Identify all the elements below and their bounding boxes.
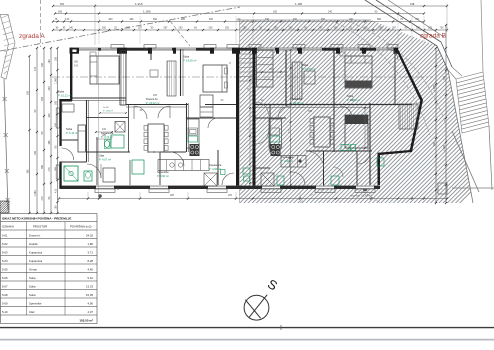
svg-text:1.060: 1.060	[34, 190, 37, 197]
svg-text:385: 385	[41, 164, 44, 169]
svg-text:250: 250	[41, 96, 44, 101]
svg-text:250: 250	[274, 27, 279, 30]
svg-text:180: 180	[349, 18, 354, 21]
svg-text:250: 250	[379, 27, 384, 30]
svg-text:P: 4,90 m²: P: 4,90 m²	[281, 159, 293, 163]
svg-text:Soba: Soba	[302, 63, 309, 67]
svg-text:Dnevni b.: Dnevni b.	[29, 233, 41, 237]
svg-text:ISKAZ NETO KORISNIH POVŠINA -: ISKAZ NETO KORISNIH POVŠINA - PRIZEMLJE	[2, 215, 71, 220]
svg-text:15,05: 15,05	[86, 293, 93, 297]
svg-text:8,28: 8,28	[88, 259, 94, 263]
svg-text:Kupaonica: Kupaonica	[29, 259, 43, 263]
svg-text:300: 300	[269, 68, 274, 71]
svg-text:5-03: 5-03	[2, 250, 8, 254]
svg-text:300: 300	[48, 86, 51, 91]
svg-text:297: 297	[319, 27, 324, 30]
svg-text:5-07: 5-07	[2, 284, 8, 288]
svg-text:385: 385	[74, 61, 79, 64]
svg-text:Soba: Soba	[183, 55, 190, 59]
svg-text:P: 1,80 m²: P: 1,80 m²	[103, 110, 113, 113]
svg-text:Dnevni Av.: Dnevni Av.	[290, 97, 302, 101]
svg-text:385: 385	[54, 166, 57, 171]
svg-text:300: 300	[41, 62, 44, 67]
svg-text:4,07: 4,07	[88, 310, 94, 314]
svg-text:3,25: 3,25	[65, 19, 70, 21]
svg-text:5-01: 5-01	[2, 233, 8, 237]
svg-text:4,40: 4,40	[88, 267, 94, 271]
svg-text:240: 240	[328, 11, 333, 14]
svg-text:P: 23,02 m²: P: 23,02 m²	[290, 101, 304, 105]
svg-text:500: 500	[58, 11, 63, 14]
svg-text:415: 415	[48, 167, 51, 172]
svg-text:5-02: 5-02	[2, 242, 8, 246]
svg-text:205: 205	[350, 99, 355, 102]
svg-text:Soba: Soba	[58, 90, 65, 94]
svg-text:P: 5,10 m²: P: 5,10 m²	[66, 131, 78, 135]
svg-text:Soba: Soba	[29, 293, 36, 297]
svg-text:Kupaonica: Kupaonica	[209, 163, 222, 167]
svg-text:300: 300	[54, 100, 57, 105]
svg-text:1.000: 1.000	[443, 144, 446, 151]
svg-text:160: 160	[273, 11, 278, 14]
svg-text:180: 180	[54, 205, 57, 210]
svg-text:103,55 m²: 103,55 m²	[79, 318, 93, 322]
svg-text:Ve 80: Ve 80	[103, 107, 109, 109]
svg-text:1.315: 1.315	[135, 2, 143, 6]
svg-text:1,80: 1,80	[88, 242, 94, 246]
svg-text:P: 4,07 m²: P: 4,07 m²	[99, 158, 111, 162]
svg-text:P: 4,90 m²: P: 4,90 m²	[157, 174, 169, 178]
svg-text:PROSTOR: PROSTOR	[33, 224, 47, 228]
svg-text:1.000: 1.000	[433, 84, 436, 91]
svg-text:300: 300	[416, 27, 421, 30]
svg-text:5-04: 5-04	[2, 259, 8, 263]
svg-text:OZNAKA: OZNAKA	[2, 224, 14, 228]
svg-text:Ormar: Ormar	[29, 267, 37, 271]
svg-text:300: 300	[48, 113, 51, 118]
svg-text:Hodnik: Hodnik	[29, 242, 38, 246]
svg-text:250: 250	[243, 27, 248, 30]
svg-text:205: 205	[289, 27, 294, 30]
svg-text:P: 23,02 m²: P: 23,02 m²	[146, 101, 160, 105]
svg-text:415: 415	[34, 66, 37, 71]
svg-text:198: 198	[410, 2, 415, 6]
svg-text:415: 415	[41, 196, 44, 201]
svg-text:P: 16,06 m²: P: 16,06 m²	[302, 67, 316, 71]
svg-text:180: 180	[129, 18, 134, 21]
svg-text:1.180: 1.180	[143, 10, 151, 14]
svg-text:5-09: 5-09	[2, 301, 8, 305]
svg-text:1.060: 1.060	[54, 77, 57, 84]
svg-text:Soba: Soba	[66, 127, 73, 131]
svg-text:Spremište: Spremište	[157, 170, 169, 174]
svg-text:300: 300	[26, 90, 29, 95]
svg-text:350: 350	[443, 75, 446, 80]
svg-text:P: 10,22 m²: P: 10,22 m²	[58, 94, 72, 98]
svg-text:700: 700	[415, 18, 420, 21]
svg-text:POVRŠINA (m2): POVRŠINA (m2)	[70, 223, 92, 228]
svg-text:385: 385	[26, 169, 29, 174]
svg-text:300: 300	[334, 27, 339, 30]
svg-text:Soba: Soba	[29, 284, 36, 288]
svg-text:385: 385	[308, 110, 313, 113]
svg-text:297: 297	[138, 27, 143, 30]
svg-text:250: 250	[321, 18, 326, 21]
svg-text:180: 180	[48, 59, 51, 64]
svg-text:24,02: 24,02	[86, 233, 93, 237]
svg-text:385: 385	[48, 140, 51, 145]
svg-text:5-08: 5-08	[2, 293, 8, 297]
svg-text:390: 390	[377, 18, 382, 21]
svg-text:390: 390	[153, 18, 158, 21]
svg-text:300: 300	[209, 27, 214, 30]
svg-text:P: 16,06 m²: P: 16,06 m²	[183, 59, 197, 63]
svg-text:287: 287	[164, 27, 169, 30]
svg-text:415: 415	[54, 188, 57, 193]
svg-text:4,90: 4,90	[88, 301, 94, 305]
svg-text:5-05: 5-05	[2, 267, 8, 271]
svg-text:500: 500	[433, 141, 436, 146]
svg-text:205: 205	[153, 94, 158, 97]
svg-text:205: 205	[428, 27, 433, 30]
svg-text:zgrada A: zgrada A	[19, 33, 45, 40]
svg-text:205: 205	[225, 27, 230, 30]
svg-text:Kupaonica: Kupaonica	[281, 155, 294, 159]
svg-text:180: 180	[34, 150, 37, 155]
svg-text:Soba: Soba	[347, 94, 354, 98]
svg-text:385: 385	[170, 194, 175, 197]
svg-text:3,71: 3,71	[88, 250, 94, 254]
svg-text:100: 100	[102, 128, 107, 131]
svg-text:Ulaz: Ulaz	[29, 310, 35, 314]
svg-text:Soba: Soba	[29, 276, 36, 280]
svg-text:205: 205	[228, 194, 233, 197]
svg-text:5-06: 5-06	[2, 276, 8, 280]
svg-text:205: 205	[364, 27, 369, 30]
svg-text:300: 300	[209, 18, 214, 21]
svg-text:P: 4,90 m²: P: 4,90 m²	[209, 167, 221, 171]
svg-text:385: 385	[102, 134, 107, 137]
svg-text:Spremište: Spremište	[29, 301, 42, 305]
svg-text:Dnevni Av.: Dnevni Av.	[146, 97, 158, 101]
svg-text:180: 180	[54, 56, 57, 61]
svg-text:300: 300	[293, 18, 298, 21]
svg-text:Kupaonica: Kupaonica	[29, 250, 43, 254]
svg-text:max dub. 92,44 m: max dub. 92,44 m	[350, 194, 371, 198]
svg-text:700: 700	[440, 27, 445, 30]
svg-text:5-10: 5-10	[2, 310, 8, 314]
svg-text:zgrada B: zgrada B	[420, 33, 446, 40]
svg-text:13,33: 13,33	[86, 284, 93, 288]
svg-text:280: 280	[181, 18, 186, 21]
svg-text:1.195: 1.195	[295, 2, 302, 6]
svg-text:250: 250	[179, 27, 184, 30]
svg-text:287: 287	[392, 27, 397, 30]
svg-text:400: 400	[108, 18, 113, 21]
svg-text:Ulaz: Ulaz	[99, 154, 105, 158]
svg-text:415: 415	[74, 65, 79, 68]
svg-text:300: 300	[102, 27, 107, 30]
svg-text:5,10: 5,10	[88, 276, 94, 280]
svg-text:500: 500	[60, 3, 65, 6]
svg-text:250: 250	[54, 122, 57, 127]
svg-text:330: 330	[265, 18, 270, 21]
